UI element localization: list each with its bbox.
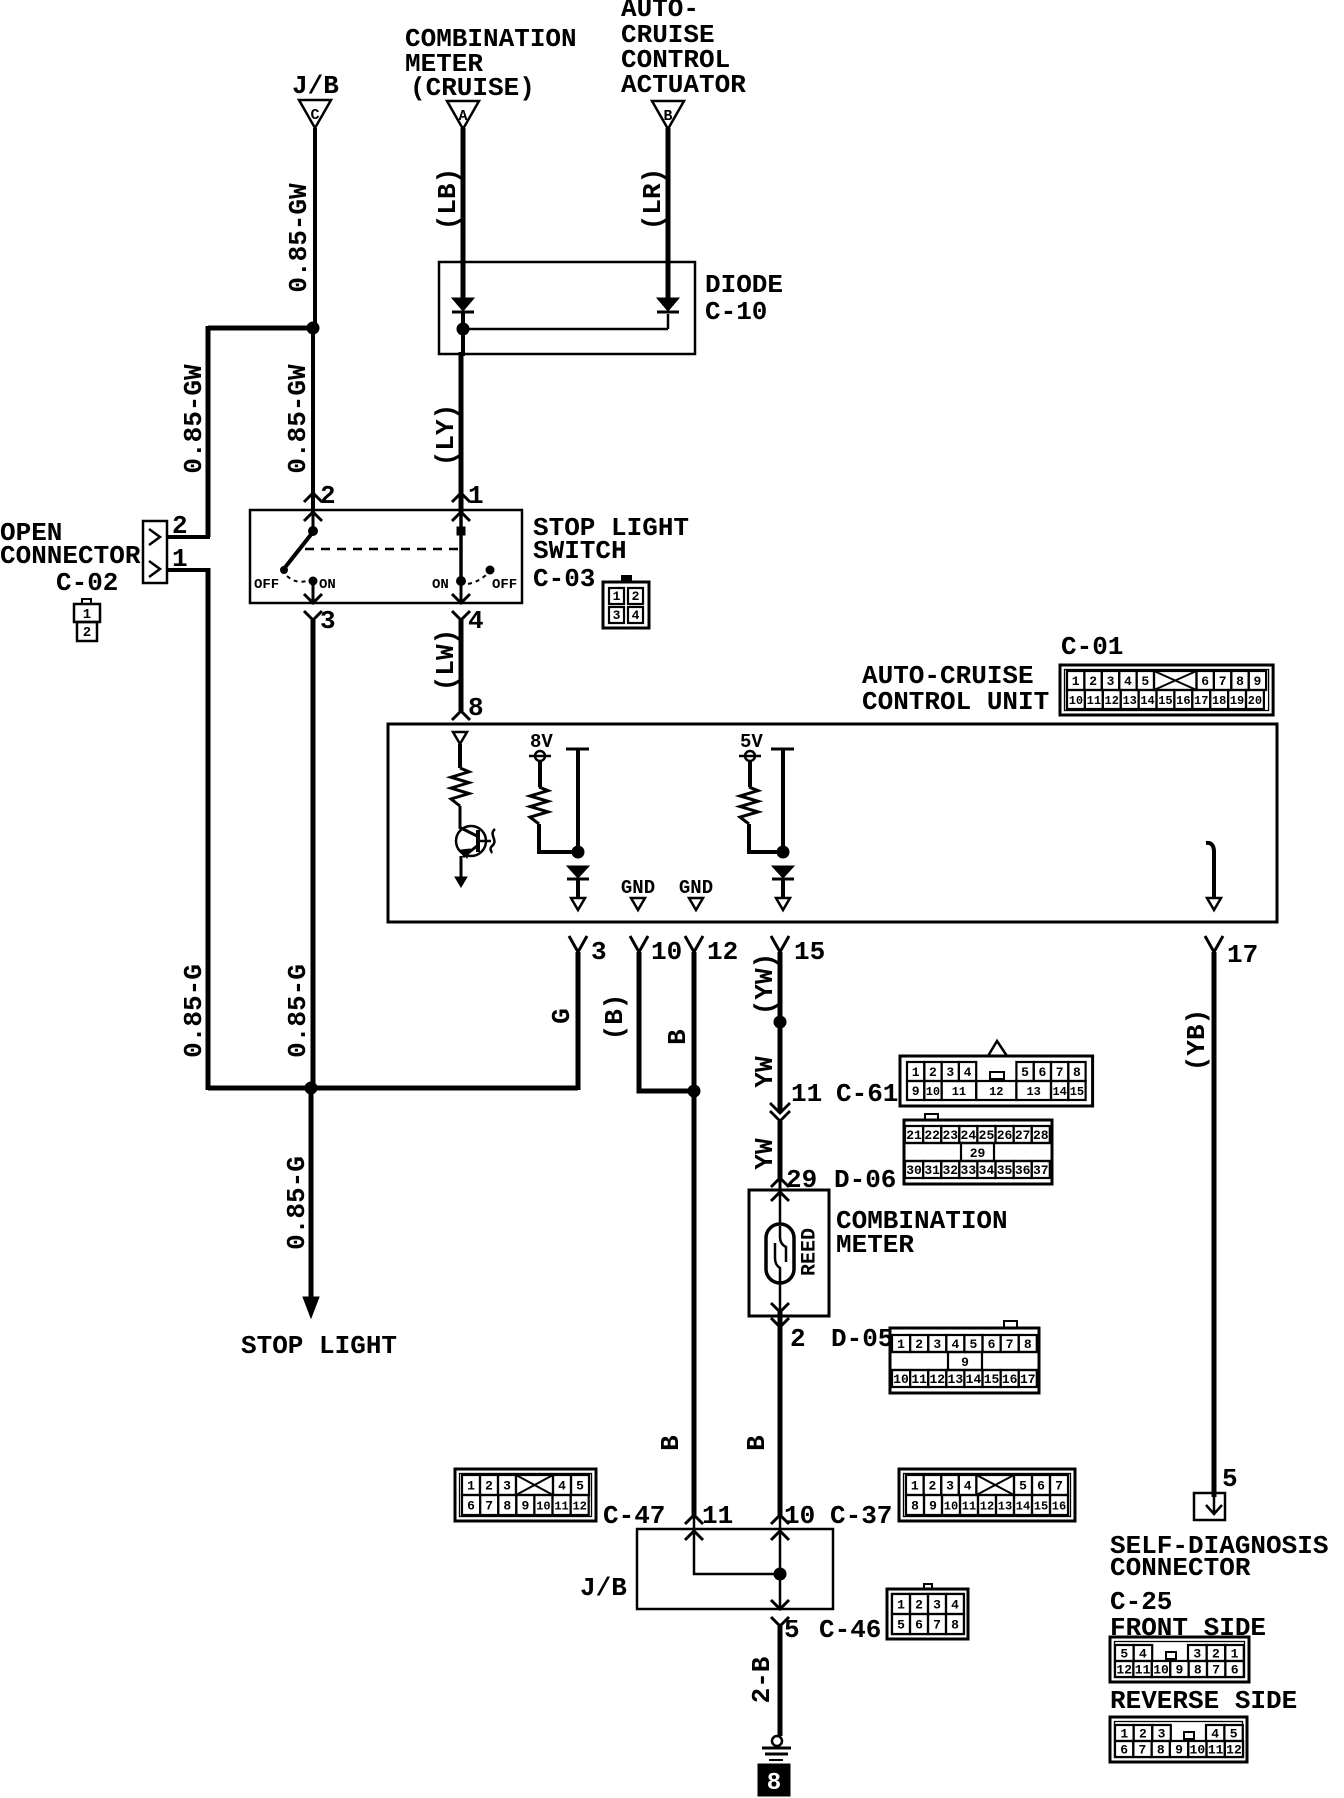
pin label 2 (open connector) [172,511,188,541]
open arrow into unit from pin 8 [453,732,467,744]
svg-text:29: 29 [970,1146,986,1161]
svg-text:8: 8 [468,693,484,723]
svg-text:7: 7 [1055,1479,1063,1494]
node B junction dot [777,846,789,858]
svg-text:13: 13 [1026,1085,1040,1099]
svg-text:4: 4 [558,1479,566,1494]
connector icon C-01 pin diagram [1060,665,1273,715]
pin 10 connector fork (at J/B edge) [771,1531,789,1540]
svg-text:3: 3 [1107,674,1115,689]
svg-text:8: 8 [1073,1065,1081,1080]
svg-text:20: 20 [1248,694,1262,708]
pin 2 connector fork (below meter box) [771,1318,789,1327]
wire pin 11 through J/B edge [693,1515,696,1534]
connector icon C-25 reverse side [1110,1717,1247,1762]
pin label 12 (control unit) [707,937,738,967]
svg-text:3: 3 [933,1598,941,1613]
svg-text:11: 11 [1208,1743,1224,1758]
wire inside J/B from pin 10 [779,1531,782,1609]
svg-text:C-10: C-10 [705,297,767,327]
svg-text:(LR): (LR) [638,168,668,230]
svg-text:11: 11 [1087,694,1101,708]
label DIODE C-10 [705,270,783,327]
svg-text:4: 4 [951,1337,959,1352]
svg-text:5: 5 [970,1337,978,1352]
svg-text:18: 18 [1212,694,1226,708]
svg-text:4: 4 [951,1598,959,1613]
svg-text:ON: ON [432,577,449,593]
wire label 0.85-G (middle) [283,964,313,1058]
svg-text:3: 3 [946,1479,954,1494]
label REVERSE SIDE [1110,1686,1297,1716]
wire YW from C-61 to meter pin 29 [778,1121,783,1178]
open connector C-02 symbol box [143,521,167,583]
svg-text:5: 5 [576,1479,584,1494]
svg-text:10: 10 [893,1372,909,1387]
svg-text:6: 6 [1201,674,1209,689]
connector icon C-02 pin diagram [74,599,100,641]
pin 11 connector fork (above J/B) [685,1515,703,1524]
svg-text:J/B: J/B [292,71,339,101]
svg-text:6: 6 [1038,1065,1046,1080]
svg-text:2: 2 [1089,674,1097,689]
pin 5 connector fork (below J/B) [771,1617,789,1626]
connector icon D-06 pin diagram [904,1114,1052,1184]
diode D3 (to pin 3) [567,866,589,879]
wire left pole to pin 3 [312,581,315,603]
arrowhead to stop light [303,1297,319,1318]
pin label 10 C-37 [784,1501,892,1531]
svg-text:8: 8 [1157,1743,1165,1758]
svg-text:0.85-GW: 0.85-GW [284,183,314,293]
svg-text:(YW): (YW) [750,953,780,1015]
pin label 5 (self-diagnosis) [1222,1464,1238,1494]
wire pin8 arrow to resistor [458,744,462,768]
wire (B) from pin 10 down and right [639,952,694,1091]
wire B from pin 12 down [692,952,697,1515]
svg-text:10: 10 [784,1501,815,1531]
combination meter box [749,1190,829,1316]
wire 0.85-GW from J/B triangle C down to junction [313,128,317,328]
junction block J/B box [637,1529,833,1609]
connector-from triangle A (combination meter cruise) [447,101,479,129]
wire label B (to C-37) [742,1435,772,1451]
pin 12 fork (control unit) [685,936,703,952]
svg-text:2-B: 2-B [747,1656,777,1703]
svg-text:YW: YW [750,1138,780,1170]
connector icon C-47 pin diagram [455,1469,596,1521]
label AUTO-CRUISE CONTROL UNIT [862,661,1049,717]
svg-text:10: 10 [536,1499,550,1513]
svg-text:2: 2 [1212,1647,1220,1662]
pin 10 fork (control unit) [630,936,648,952]
svg-text:7: 7 [485,1499,493,1514]
svg-text:7: 7 [1056,1065,1064,1080]
svg-text:5: 5 [1230,1727,1238,1742]
svg-text:12: 12 [707,937,738,967]
pin label 3 (switch) [320,606,336,636]
wire label 0.85-GW (left branch) [179,364,209,474]
switch left pole arm (open, at OFF) [281,532,314,574]
svg-text:8: 8 [1236,674,1244,689]
label FRONT SIDE [1110,1613,1266,1643]
svg-text:0.85-G: 0.85-G [283,964,313,1058]
svg-text:28: 28 [1033,1128,1049,1143]
svg-text:2: 2 [928,1479,936,1494]
svg-text:2: 2 [632,589,640,604]
label COMBINATION METER (reed) [836,1206,1008,1260]
ground symbol [762,1736,791,1760]
svg-text:B: B [656,1435,686,1451]
switch right pole top contact [457,527,465,535]
svg-text:5: 5 [1141,674,1149,689]
switch left pole ON contact dot [309,577,317,585]
svg-text:3: 3 [1193,1647,1201,1662]
svg-text:2: 2 [1139,1727,1147,1742]
svg-text:36: 36 [1015,1163,1031,1178]
in-line connector C-61 chevron 2 [770,1111,790,1121]
svg-text:8: 8 [911,1499,919,1514]
label COMBINATION METER (CRUISE) [405,24,577,103]
wire from diode D1 to node [461,312,465,356]
svg-text:2: 2 [485,1479,493,1494]
svg-text:B: B [663,1029,693,1045]
pin 11 connector fork (at J/B edge) [685,1531,703,1540]
connector icon C-46 pin diagram [887,1584,968,1639]
svg-text:1: 1 [1120,1727,1128,1742]
svg-text:D-05: D-05 [831,1324,893,1354]
wire label B (pin 12 wire) [663,1029,693,1045]
svg-text:1: 1 [467,1479,475,1494]
pin 10 connector fork (above J/B) [771,1515,789,1524]
pin 3 connector fork (below box) [304,611,322,620]
label ON (left pole) [319,577,336,593]
5V supply circle [739,751,761,761]
wire 0.85-GW continuing down to switch pin 2 [311,328,315,512]
svg-text:9: 9 [961,1355,969,1370]
pin label 5 C-46 [784,1615,881,1645]
reed switch blade 1 [780,1226,786,1262]
svg-text:16: 16 [1052,1499,1066,1513]
label OFF (right pole) [492,577,517,593]
svg-text:13: 13 [998,1499,1012,1513]
svg-text:15: 15 [1158,694,1172,708]
svg-text:SWITCH: SWITCH [533,536,627,566]
pin 2 connector fork (at meter box bottom) [771,1303,789,1312]
svg-text:17: 17 [1227,940,1258,970]
open arrow GND pin 12 [689,898,703,910]
svg-text:STOP LIGHT: STOP LIGHT [241,1331,397,1361]
label AUTO-CRUISE CONTROL ACTUATOR [621,0,746,100]
wire (YB) from pin 17 down [1212,952,1217,1497]
connector-from triangle B (actuator) [652,101,684,129]
open arrow GND pin 10 [631,898,645,910]
svg-text:4: 4 [468,606,484,636]
open connector pin 1 contact [149,561,160,577]
wire label 0.85-GW (top) [284,183,314,293]
svg-text:0.85-G: 0.85-G [179,964,209,1058]
wire 0.85-G to stop light arrow [309,1088,314,1300]
wire reed to meter box bottom [779,1283,782,1316]
pin label 1 (open connector) [172,544,188,574]
svg-text:C-61: C-61 [836,1079,898,1109]
svg-text:1: 1 [897,1598,905,1613]
in-line connector C-61 chevron 1 [770,1103,790,1113]
pin label 1 (switch) [468,481,484,511]
svg-text:11: 11 [1135,1663,1151,1678]
wire label B (lower, to C-47) [656,1435,686,1451]
open arrow to pin 17 [1207,898,1221,910]
connector icon C-03 pin diagram [603,576,649,628]
pin label 17 (control unit) [1227,940,1258,970]
svg-text:4: 4 [964,1065,972,1080]
connector-from triangle C (J/B) [299,100,331,128]
svg-text:17: 17 [1020,1372,1036,1387]
pin label C-47 11 [603,1501,733,1531]
svg-text:15: 15 [1070,1085,1084,1099]
wire 0.85-GW left branch down to open connector pin 2 [206,326,211,537]
svg-text:1: 1 [1072,674,1080,689]
wire G from pin 3 down [576,952,581,1090]
svg-text:2: 2 [929,1065,937,1080]
dashed arc right pole [468,575,486,584]
svg-text:19: 19 [1230,694,1244,708]
svg-text:0.85-G: 0.85-G [282,1156,312,1250]
wire 5V circle to resistor R3 [748,761,752,787]
wire label YW (above C-61) [750,1056,780,1088]
pin 3 fork (control unit) [569,936,587,952]
reed switch blade 2 [775,1243,780,1283]
svg-text:33: 33 [961,1163,977,1178]
wire 0.85-G from switch pin 3 down [311,620,316,1090]
svg-text:8V: 8V [530,731,553,753]
svg-text:(LW): (LW) [431,629,461,691]
svg-text:12: 12 [929,1372,945,1387]
svg-text:2: 2 [83,625,91,641]
label GND (right) [679,877,713,899]
wire (LR) from triangle B down into diode box [666,128,671,299]
svg-text:11: 11 [911,1372,927,1387]
wire label (LW) [431,629,461,691]
pin 1 connector fork (above box) [452,493,470,502]
pin label 8 (control unit) [468,693,484,723]
svg-text:0.85-GW: 0.85-GW [179,364,209,474]
switch right pole pivot dot [457,577,466,586]
svg-text:8: 8 [1194,1663,1202,1678]
switch right pole arm (closed, at ON) [459,512,463,578]
wire pin 29 through meter box edge [779,1178,782,1196]
svg-text:3: 3 [613,608,621,623]
svg-text:34: 34 [979,1163,995,1178]
pin 2 connector fork (at box edge) [304,512,322,521]
svg-text:5: 5 [784,1615,800,1645]
svg-text:1: 1 [912,1065,920,1080]
svg-text:4: 4 [964,1479,972,1494]
svg-text:12: 12 [1105,694,1119,708]
wire branch to open connector (horizontal) [208,326,315,331]
svg-text:4: 4 [1124,674,1132,689]
wire label (LR) [638,168,668,230]
pin 17 fork (control unit) [1205,936,1223,952]
svg-text:(CRUISE): (CRUISE) [410,73,535,103]
svg-text:1: 1 [613,589,621,604]
svg-text:4: 4 [1139,1647,1147,1662]
diode box C-10 outline [439,262,695,354]
label ON (right pole) [432,577,449,593]
svg-text:(B): (B) [600,994,630,1041]
svg-text:17: 17 [1194,694,1208,708]
svg-text:(LB): (LB) [433,168,463,230]
svg-text:C-46: C-46 [819,1615,881,1645]
resistor R1 (input) [451,768,469,806]
svg-text:9: 9 [1253,674,1261,689]
svg-text:C-37: C-37 [830,1501,892,1531]
wire label 0.85-G (left) [179,964,209,1058]
label C-01 [1061,632,1123,662]
label C-25 [1110,1587,1172,1617]
svg-text:2: 2 [915,1598,923,1613]
pin 29 connector fork (above meter box) [771,1178,789,1187]
svg-text:6: 6 [915,1618,923,1633]
wire label (LB) [433,168,463,230]
label OPEN CONNECTOR C-02 [0,518,141,598]
svg-text:D-06: D-06 [834,1165,896,1195]
svg-text:6: 6 [1120,1743,1128,1758]
node A junction dot [572,846,584,858]
svg-text:G: G [547,1008,577,1024]
svg-text:5: 5 [1222,1464,1238,1494]
svg-text:22: 22 [924,1128,940,1143]
svg-text:35: 35 [997,1163,1013,1178]
switch right pole OFF contact dot [486,566,494,574]
pin 29 connector fork (at meter box edge) [771,1192,789,1201]
svg-text:12: 12 [572,1499,586,1513]
svg-text:ACTUATOR: ACTUATOR [621,70,746,100]
stop light switch box C-03 [250,510,522,603]
svg-text:10: 10 [1069,694,1083,708]
svg-text:6: 6 [467,1499,475,1514]
svg-text:OFF: OFF [492,577,517,593]
svg-text:DIODE: DIODE [705,270,783,300]
label J/B [292,71,339,101]
wire label (LY) [431,404,461,466]
wire resistor R2 to node A [539,824,578,852]
dashed arc left pole [287,576,306,582]
connector icon C-37 pin diagram [899,1469,1075,1521]
wire (LY) from diode box to stop light switch pin 1 [459,352,464,512]
wire into reed capsule [779,1192,782,1226]
svg-text:3: 3 [1158,1727,1166,1742]
wire pin2 into switch [312,512,315,528]
wire (LB) from triangle A down into diode box [461,128,466,299]
self-diagnosis connector box [1194,1493,1225,1520]
svg-text:10: 10 [651,937,682,967]
svg-text:11: 11 [702,1501,733,1531]
svg-text:CONNECTOR: CONNECTOR [0,541,141,571]
svg-text:9: 9 [1175,1743,1183,1758]
wire 0.85-G horizontal collector [208,1086,578,1091]
svg-text:OFF: OFF [254,577,279,593]
pin label 2 D-05 [790,1324,893,1354]
pin 8 connector fork (above control unit) [452,711,470,720]
wire right pole to pin 4 [460,581,463,603]
svg-text:30: 30 [906,1163,922,1178]
open arrow to pin 15 [776,898,790,910]
svg-text:7: 7 [933,1618,941,1633]
svg-text:J/B: J/B [580,1573,627,1603]
wire open connector pin 1 to down branch [167,568,210,572]
wire (LW) from switch pin 4 to control unit pin 8 [459,620,464,711]
svg-text:11: 11 [962,1499,976,1513]
wire (YW) from pin 15 down [778,952,783,1113]
transistor Q1 [455,806,495,887]
wire with hook to pin 17 [1206,843,1214,898]
pin label 11 C-61 [791,1079,898,1109]
svg-text:GND: GND [679,877,713,899]
svg-text:11: 11 [791,1079,822,1109]
ground reference box 8 [758,1764,790,1797]
svg-text:3: 3 [946,1065,954,1080]
wire inside J/B from pin 11 [694,1531,780,1574]
svg-text:25: 25 [979,1128,995,1143]
switch left pole pivot dot [309,527,318,536]
pin label 10 (control unit) [651,937,682,967]
svg-text:4: 4 [632,608,640,623]
svg-text:24: 24 [961,1128,977,1143]
svg-text:37: 37 [1033,1163,1049,1178]
node splice on YW wire [774,1016,786,1028]
svg-text:1: 1 [83,607,91,623]
svg-text:1: 1 [911,1479,919,1494]
svg-text:5: 5 [1120,1647,1128,1662]
svg-text:REED: REED [799,1228,822,1276]
svg-text:2: 2 [915,1337,923,1352]
open connector pin 2 contact [149,529,160,545]
label STOP LIGHT SWITCH C-03 [533,513,689,594]
wire connecting diode outputs [463,314,668,329]
label SELF-DIAGNOSIS CONNECTOR [1110,1531,1328,1583]
diode D4 (to pin 15) [772,866,794,879]
svg-text:11: 11 [554,1499,568,1513]
mechanical link dashed line [305,548,458,551]
svg-text:2: 2 [790,1324,806,1354]
pin 4 connector fork (below box) [452,611,470,620]
connector icon C-25 front side [1110,1637,1249,1682]
svg-text:3: 3 [503,1479,511,1494]
svg-text:5V: 5V [740,731,763,753]
node junction at J/B wire split [307,322,319,334]
svg-text:6: 6 [1231,1663,1239,1678]
8V supply circle [529,751,551,761]
label STOP LIGHT [241,1331,397,1361]
svg-text:10: 10 [926,1085,940,1099]
svg-text:ON: ON [319,577,336,593]
svg-text:1: 1 [897,1337,905,1352]
svg-text:16: 16 [1002,1372,1018,1387]
pin label 4 (switch) [468,606,484,636]
reed switch capsule [766,1224,794,1283]
svg-text:8: 8 [503,1499,511,1514]
svg-text:10: 10 [1190,1743,1206,1758]
svg-text:7: 7 [1139,1743,1147,1758]
svg-text:8: 8 [951,1618,959,1633]
svg-text:12: 12 [989,1085,1003,1099]
svg-text:C-02: C-02 [56,568,118,598]
wire label 0.85-GW (middle) [283,364,313,474]
pin 15 fork (control unit) [771,936,789,952]
pin label 29 D-06 [786,1165,896,1195]
svg-text:12: 12 [980,1499,994,1513]
